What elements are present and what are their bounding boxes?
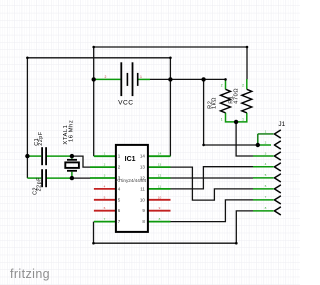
wire IC pin12 to J1 pin5 [171, 177, 254, 179]
resistor R2 zigzag [221, 89, 231, 113]
wire crystal bottom to IC pin3 [72, 177, 91, 179]
wire crystal top jog to IC pin2 [72, 156, 91, 167]
svg-text:J1: J1 [278, 121, 285, 128]
wire battery right rail [150, 78, 226, 80]
svg-text:1: 1 [265, 129, 267, 133]
svg-text:1: 1 [221, 118, 223, 122]
svg-text:2: 2 [221, 84, 223, 88]
wire top rail net A [94, 46, 247, 48]
wire C2 right lead to crystal bottom [47, 177, 72, 179]
svg-text:14: 14 [158, 152, 162, 156]
wire IC pin13 to J1 pin6 [171, 167, 254, 200]
IC1 tiny stub labels right [158, 152, 162, 221]
svg-text:12: 12 [140, 176, 146, 181]
svg-text:9: 9 [159, 206, 161, 210]
svg-text:14: 14 [140, 154, 146, 159]
svg-text:12: 12 [158, 174, 162, 178]
svg-text:11: 11 [140, 186, 145, 191]
svg-text:4: 4 [104, 184, 106, 188]
svg-text:16 Mhz: 16 Mhz [69, 120, 75, 142]
svg-text:8: 8 [265, 206, 267, 210]
wire J1 pin2 horizontal [204, 144, 258, 146]
capacitor C2 [41, 169, 47, 187]
wire vertical to IC pin14 [169, 58, 171, 156]
wire left vertical to capacitors [26, 58, 28, 178]
svg-text:1: 1 [104, 152, 106, 156]
svg-text:1kΩ: 1kΩ [211, 97, 217, 109]
J1 tiny pin labels [265, 129, 267, 210]
svg-text:4: 4 [265, 162, 267, 166]
IC1 internal pin numbers right [140, 154, 146, 224]
wire IC pin8 to J1 pin7 [171, 200, 254, 222]
svg-text:13: 13 [158, 163, 162, 167]
svg-text:2: 2 [104, 163, 106, 167]
wire IC pin11 to J1 pin4 [171, 167, 254, 189]
svg-text:22pF: 22pF [38, 131, 44, 145]
svg-text:1: 1 [140, 75, 142, 79]
svg-text:2: 2 [105, 75, 107, 79]
op IC1 pin stubs left [90, 156, 116, 221]
capacitor C1 [41, 147, 47, 165]
wire vertical VCC to J1 pin2 [203, 79, 205, 145]
svg-text:fritzing: fritzing [10, 267, 50, 281]
wire R1 top lead [246, 79, 248, 89]
wire battery left lead [94, 78, 121, 80]
svg-text:10: 10 [140, 197, 146, 202]
wire second rail net B [27, 57, 170, 59]
svg-text:VCC: VCC [118, 99, 133, 106]
wire C1 right lead to crystal top [47, 155, 72, 157]
wire R junction to J1 pin3 [236, 122, 253, 156]
IC1 body [116, 145, 148, 232]
battery VCC plates [120, 62, 138, 96]
wire C1 left lead [27, 155, 41, 157]
wire J1 pin6 green lead [253, 188, 274, 190]
svg-text:22pF: 22pF [37, 177, 43, 191]
bend dots [26, 46, 248, 245]
svg-text:3: 3 [104, 174, 106, 178]
wire J1 pin3 green lead [253, 155, 274, 157]
wire IC pin7 to J1 pin8 [94, 211, 254, 243]
resistor R1 zigzag [242, 89, 252, 113]
svg-text:2: 2 [242, 84, 244, 88]
wire C2 left lead [27, 177, 41, 179]
svg-text:6: 6 [265, 184, 267, 188]
svg-text:8: 8 [159, 217, 161, 221]
IC1 pin stubs right [148, 156, 171, 221]
svg-text:6: 6 [104, 206, 106, 210]
wire vertical to R1 top [246, 47, 248, 79]
svg-text:3: 3 [265, 151, 267, 155]
svg-text:5: 5 [104, 195, 106, 199]
connector J1 chevrons [274, 130, 280, 215]
wire J1 pin5 green lead [253, 177, 274, 179]
wire J1 pin2 green lead [258, 144, 271, 146]
svg-text:1: 1 [242, 118, 244, 122]
svg-text:13: 13 [140, 165, 146, 170]
wire vertical to IC pin1 [93, 47, 95, 156]
IC1 internal pin numbers left [118, 154, 121, 224]
wire J1 pin4 green lead [253, 166, 274, 168]
wire J1 pin8 green lead [253, 210, 274, 212]
wire J1 pin7 green lead [253, 199, 274, 201]
wire resistor bottom bracket [226, 113, 247, 122]
svg-text:470Ω: 470Ω [233, 88, 239, 104]
crystal XTAL1 [65, 156, 79, 178]
svg-text:2: 2 [265, 140, 267, 144]
svg-text:IC1: IC1 [125, 156, 136, 163]
IC1 tiny stub labels left [104, 152, 106, 221]
svg-text:7: 7 [104, 217, 106, 221]
wire battery right lead green [139, 78, 151, 80]
svg-text:11: 11 [158, 184, 161, 188]
svg-text:10: 10 [158, 195, 162, 199]
wire J1 pin1 link [258, 134, 274, 145]
wire R2 top lead [225, 79, 227, 89]
svg-text:7: 7 [265, 195, 267, 199]
svg-text:5: 5 [265, 173, 267, 177]
